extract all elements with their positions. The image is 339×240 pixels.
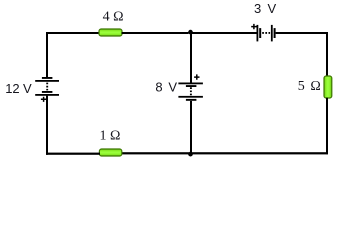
wire right-lower segment: [326, 98, 328, 155]
svg-text:4 Ω: 4 Ω: [103, 9, 124, 24]
svg-text:5: 5: [298, 79, 305, 94]
svg-text:3: 3: [254, 1, 261, 16]
battery B3 8 V thick plate 2: [186, 99, 197, 101]
battery B1 3 V thick plate 2: [274, 28, 276, 38]
battery B3 8 V dashed link: [190, 87, 192, 95]
battery B1 3 V long plate 1: [257, 25, 259, 42]
battery B2 12 V thick plate 2: [42, 91, 53, 93]
wire top-left segment: [46, 32, 100, 34]
svg-text:V: V: [168, 79, 177, 94]
wire right-upper segment: [326, 32, 328, 77]
wire bottom-right segment: [192, 152, 328, 154]
battery B2 12 V dashed link: [46, 83, 48, 91]
wire top-middle segment: [122, 32, 189, 34]
wire left-upper segment: [46, 32, 48, 77]
svg-text:12: 12: [5, 81, 19, 96]
resistor R1 4 ohm: [99, 29, 122, 36]
wire top-far-right segment: [276, 32, 328, 34]
resistor R2 1 ohm: [99, 149, 121, 156]
wire bottom-middle segment: [122, 152, 190, 154]
svg-text:Ω: Ω: [310, 79, 320, 94]
battery B3 8 V long plate 2: [178, 96, 203, 98]
resistor R3 5 ohm: [324, 76, 332, 98]
wire top-right-of-node segment: [192, 32, 257, 34]
node A junction dot top: [188, 30, 193, 35]
battery B2 12 V long plate 1: [35, 80, 59, 82]
battery B3 8 V long plate 1: [178, 83, 203, 85]
svg-text:V: V: [23, 81, 32, 96]
wire middle-upper segment: [190, 33, 192, 83]
battery B1 3 V plus sign: [251, 24, 256, 29]
wire bottom-left segment: [46, 153, 100, 155]
svg-text:1 Ω: 1 Ω: [100, 128, 121, 143]
wire middle-lower segment: [190, 101, 192, 153]
wire left-lower segment: [46, 96, 48, 155]
battery B2 12 V plus sign: [41, 97, 46, 102]
svg-text:8: 8: [155, 79, 162, 94]
battery B1 3 V thick plate 1: [259, 28, 261, 38]
battery B3 8 V thick plate 1: [186, 85, 197, 87]
battery B2 12 V thick plate 1: [42, 77, 53, 79]
battery B2 12 V long plate 2: [35, 94, 59, 96]
battery B1 3 V long plate 2: [271, 25, 273, 42]
node B junction dot bottom: [188, 152, 193, 157]
battery B1 3 V dashed link: [262, 32, 270, 34]
svg-text:V: V: [268, 1, 277, 16]
battery B3 8 V plus sign: [194, 74, 199, 79]
